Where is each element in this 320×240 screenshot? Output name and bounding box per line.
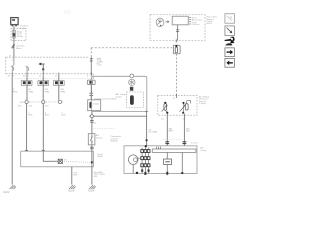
battery B1 (11, 18, 18, 27)
ground symbol G102 (10, 185, 16, 189)
wire diamond to pressure switch (91, 118, 93, 134)
svg-text:150: 150 (94, 176, 98, 178)
wire C fuse to splice (42, 75, 44, 100)
wire labels grounds (73, 171, 105, 178)
splice diamond (90, 114, 95, 118)
label pressure switch (96, 134, 103, 139)
wire compressor tee down (146, 112, 148, 146)
fuse E box (87, 80, 95, 84)
svg-text:Diode: Diode (93, 104, 99, 106)
valve body dark rect (130, 87, 133, 91)
svg-text:B/PG: B/PG (207, 23, 213, 25)
svg-text:BLK: BLK (73, 175, 78, 177)
wire C splice to junction block (42, 103, 44, 151)
label sensor box right (199, 95, 210, 105)
wire A fuse block to ground (11, 75, 13, 185)
wire to diamond (91, 111, 93, 115)
wire E through junction block (91, 151, 93, 167)
ground symbol G104 (89, 185, 95, 189)
wire battery to fuse block (13, 26, 15, 57)
contact grid col lines (142, 146, 149, 173)
svg-text:1: 1 (45, 102, 47, 104)
svg-text:RED: RED (13, 91, 18, 93)
dashed wire relay to sensor box (176, 54, 178, 96)
svg-text:Block: Block (16, 48, 22, 50)
svg-text:4 C121: 4 C121 (191, 142, 199, 144)
relay contact hook B (26, 66, 29, 74)
wire labels middle (149, 128, 191, 133)
internal wire 1 (166, 152, 168, 159)
ignition switch dashed box (150, 15, 205, 41)
key arrow glyph (165, 21, 168, 23)
ignition internal labels (192, 16, 203, 26)
svg-text:C2: C2 (93, 123, 97, 125)
junction dot (91, 161, 93, 163)
svg-text:B: B (173, 98, 175, 100)
wire B fuse to splice (26, 75, 28, 100)
svg-text:Build: Build (98, 156, 104, 158)
pressure relief valve symbol (129, 79, 135, 86)
underhood fuse block dashed outline (6, 57, 93, 79)
svg-text:10: 10 (8, 76, 11, 78)
entry dot (145, 145, 147, 147)
svg-text:39: 39 (23, 76, 26, 78)
svg-text:17: 17 (55, 76, 58, 78)
svg-text:G103: G103 (68, 189, 75, 193)
dotted splice bus (28, 101, 58, 103)
fuse F3 box (53, 80, 64, 85)
svg-text:G104: G104 (88, 189, 95, 193)
label battery positive cable (20, 25, 28, 30)
junction block box (21, 151, 94, 167)
label C100 block (97, 57, 103, 67)
wire ground G103 (71, 167, 73, 185)
svg-text:150: 150 (18, 105, 22, 107)
svg-text:BLK: BLK (45, 115, 50, 117)
svg-text:3: 3 (13, 76, 15, 78)
svg-text:ORN: ORN (28, 91, 33, 93)
link motor to contacts (138, 157, 141, 159)
wire ground G104 (91, 167, 93, 185)
pin number labels (8, 76, 89, 78)
wire D fuse to splice (58, 75, 60, 100)
svg-text:11: 11 (39, 76, 42, 78)
dotted bus from splice X (62, 160, 91, 163)
motor circle (128, 155, 138, 165)
dotted PCM leader (93, 127, 114, 129)
svg-text:C100: C100 (97, 65, 102, 67)
label below connector (98, 153, 104, 158)
icon note 1 (225, 14, 235, 24)
motor ground stub (132, 165, 134, 174)
wire labels row1 (13, 89, 66, 93)
sensor element 2 (180, 101, 191, 114)
svg-text:ORN: ORN (44, 91, 49, 93)
svg-text:S1: S1 (64, 160, 67, 162)
svg-text:1: 1 (62, 102, 64, 104)
connector ticks on wires (165, 142, 186, 144)
wire from contact block down (177, 25, 179, 41)
terminal circle on top edge (130, 74, 134, 78)
svg-text:Comp: Comp (200, 150, 207, 152)
dotted label leader (163, 138, 182, 140)
ignition switch label right (207, 16, 218, 26)
relay contact hook A (11, 66, 14, 74)
splice X box (58, 159, 62, 163)
clutch coil capsule (130, 95, 134, 105)
faint header smudge (64, 10, 71, 15)
junction dot on wire (145, 139, 147, 141)
splice S3 (58, 100, 61, 103)
ignition switch rotor (156, 18, 164, 27)
splice S2 (42, 100, 45, 103)
icon left arrow 5 (225, 58, 235, 67)
junction dot C (42, 68, 44, 70)
clutch coil dashed sub-box (126, 92, 143, 108)
pin labels below sensor box (161, 119, 186, 121)
bottom edge pin marks (136, 169, 183, 175)
wire diamond to compressor tee (94, 115, 146, 117)
connector tick C2 (90, 121, 94, 123)
svg-text:6: 6 (87, 76, 89, 78)
pin labels top edge (9, 55, 13, 61)
pin ticks entering junction block (25, 149, 45, 151)
bar pin ticks (156, 147, 160, 149)
internal wire 2 (181, 152, 183, 173)
svg-text:BLK: BLK (186, 131, 191, 133)
svg-text:BLK: BLK (28, 115, 33, 117)
ground symbol G103 (69, 185, 75, 189)
label right of assembly (200, 147, 207, 152)
bus bar (152, 149, 196, 152)
dotted fuse row line (15, 78, 93, 80)
diode box (A/C compressor diode) (88, 100, 101, 111)
splice S1 (25, 100, 28, 103)
pin ticks on fuse block bottom edge (12, 73, 91, 75)
connector on wire below switch (90, 145, 94, 151)
svg-text:S132: S132 (20, 102, 26, 104)
svg-text:RED: RED (169, 131, 174, 133)
wire labels row2 (18, 105, 67, 116)
splice squiggle S110 (12, 44, 15, 48)
label PCM (110, 135, 121, 142)
pin tick at box bottom (175, 39, 177, 42)
svg-text:3: 3 (11, 59, 13, 61)
motor inner (133, 158, 137, 162)
connector C125 on wire (89, 84, 93, 99)
sensor element 1 (162, 102, 169, 114)
icon right arrow 4 (225, 48, 235, 57)
connector C100 marks (90, 57, 93, 76)
svg-text:BLK: BLK (61, 115, 66, 117)
icon arrow 2 (225, 26, 235, 36)
svg-text:Underhood Fuse Block: Underhood Fuse Block (94, 98, 117, 101)
contact grid squares (141, 150, 150, 167)
maxi fuse component (173, 45, 180, 54)
svg-text:1: 1 (28, 76, 30, 78)
svg-text:G102: G102 (3, 190, 10, 194)
sensor dashed box (158, 96, 197, 116)
svg-text:DK GRN: DK GRN (149, 132, 158, 134)
svg-text:Off Run: Off Run (192, 24, 200, 26)
svg-text:B: B (9, 55, 11, 57)
node C feed arrow (41, 64, 45, 69)
wire sensor C1 down (166, 114, 168, 146)
svg-text:Clutch: Clutch (116, 95, 123, 98)
svg-text:250 A: 250 A (17, 35, 23, 38)
bottom assembly box (124, 146, 197, 174)
label splice (16, 45, 25, 50)
svg-text:C1: C1 (161, 119, 165, 121)
svg-text:150: 150 (29, 105, 33, 107)
svg-text:Switch: Switch (96, 136, 103, 139)
pin tick column (189, 17, 191, 24)
svg-text:150: 150 (45, 105, 49, 107)
A/C compressor box (92, 76, 147, 111)
icon black curved arrow 3 (225, 39, 231, 41)
svg-text:ORN: ORN (60, 91, 65, 93)
internal wire C to splice X (43, 151, 58, 161)
fuse F2 box (38, 80, 49, 85)
A/C pressure switch box (88, 134, 95, 145)
fuse: mega fuse dashed holder (11, 29, 26, 41)
svg-text:2 Early: 2 Early (199, 102, 207, 105)
svg-text:Module: Module (110, 141, 118, 143)
label mega fuse (17, 31, 23, 37)
fuse F1 box (21, 80, 32, 85)
tick symbol on wire (176, 30, 179, 32)
wire sensor C2 down (183, 114, 185, 146)
wire B splice to junction block (26, 103, 28, 151)
small device box (164, 159, 172, 165)
ignition contact block (172, 16, 188, 25)
svg-text:1: 1 (29, 102, 31, 104)
dashed feed wire from relay to column E (91, 47, 173, 49)
pin tick into sensor box (176, 94, 178, 98)
label clutch coil (116, 93, 127, 98)
